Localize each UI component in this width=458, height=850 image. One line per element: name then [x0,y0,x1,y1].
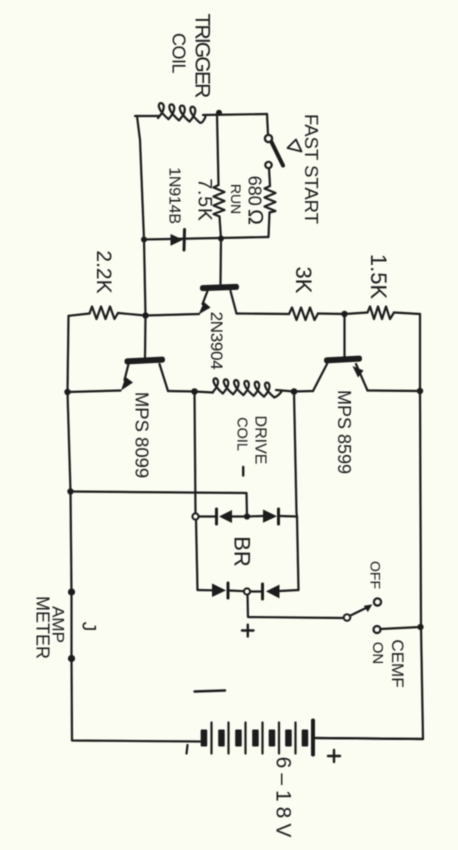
wire center tap up and left [71,492,248,517]
wire battery to right rail [315,738,423,739]
node: trigger/7.5K junction [216,110,222,116]
node 2.2K / Q2 base [142,312,148,318]
node meter jack top [68,588,75,595]
wire top rail left stub [135,115,159,117]
wire right rail [316,314,423,739]
wire node to 1.5K [345,313,368,315]
switch S1 motion arrow [288,140,302,152]
node diode row left [141,237,147,243]
svg-text:1.5K: 1.5K [366,254,391,300]
battery positive plate [311,721,315,755]
svg-text:BR: BR [230,536,255,567]
node left rail / Q2 emitter [64,389,70,395]
wire Q2 collector to coil node [168,390,195,393]
svg-text:FAST START: FAST START [301,114,322,224]
svg-text:2.2K: 2.2K [92,250,115,293]
wire run rail (bottom of loop) [144,237,269,240]
wire left vertical from trigger coil [137,116,146,316]
switch S2 pivot [344,614,351,621]
wire node to Q3 left leg [294,390,313,393]
node bridge top center [244,513,250,519]
transistor Q2 collector leg [160,364,169,391]
resistor 3K [289,308,318,321]
node meter jack bottom [68,655,75,662]
transistor Q3 left leg [313,364,327,391]
wire 7.5K bottom lead [220,217,222,239]
wire bridge right column [294,392,299,591]
switch S2 OFF contact [374,598,381,605]
wire 7.5K top lead [217,114,219,185]
wire 2.2K to base node [118,313,146,316]
diode BR bottom-left [212,584,226,598]
terminal circle bridge top-left [192,513,198,519]
svg-text:2N3904: 2N3904 [207,312,226,370]
svg-text:7.5K: 7.5K [194,178,216,221]
transistor Q1 collector leg [231,291,237,314]
svg-text:OFF: OFF [368,561,384,589]
wire Q3 base lead [343,314,345,357]
svg-text:1N914B: 1N914B [166,167,183,224]
wire Q2 base lead [144,316,147,358]
node left rail tap [67,488,73,494]
diode BR bottom-right [261,584,264,599]
switch S1 contact bottom [265,162,271,168]
transistor Q3 MPS8599 bar [324,356,362,364]
svg-text:CEMF: CEMF [388,639,407,687]
svg-text:680: 680 [245,176,265,206]
resistor 2.2K [90,307,119,320]
wire coil right to switch corner [203,114,267,115]
plus sign battery [328,750,340,762]
wire Q3 emitter to right rail [368,389,421,392]
node right rail / switch [417,624,423,630]
resistor 1.5K [368,307,395,320]
svg-text:ON: ON [369,642,386,665]
svg-text:COIL: COIL [234,417,250,451]
wire ON to right rail [381,627,421,629]
wire coil to node [276,390,294,392]
trigger coil L1 [158,103,206,123]
switch S2 ON contact [374,626,381,633]
switch S1 blade [272,142,284,166]
diode BR top-right [263,510,277,523]
wire to drive coil [195,392,214,393]
wire base node to Q1 emitter [146,314,200,316]
wire 680 bottom to run rail [269,213,270,238]
battery BT1 long plates [212,723,296,754]
wire left rail top corner [69,314,90,316]
wire 1.5K to right rail corner [394,313,420,315]
bridge bottom row: wire [198,589,213,591]
wire Q1 collector to 3K [237,312,290,315]
wire left rail [68,316,201,742]
svg-text:6–18V: 6–18V [272,757,295,843]
switch S2 blade [350,607,369,616]
node drive coil left [191,388,198,395]
wire Q1 base lead [219,239,222,284]
wire corner down to fast-start switch [267,114,268,135]
battery minus tick [187,745,188,754]
bridge top row: wire [199,515,216,517]
transistor Q1 emitter leg [203,291,208,304]
transistor Q2 emitter leg + arrow [125,364,129,380]
svg-text:DRIVE: DRIVE [252,416,269,465]
svg-text:TRIGGER: TRIGGER [191,13,214,98]
plus sign bridge output [242,625,254,637]
battery BT1 cells [201,730,309,747]
svg-text:3K: 3K [291,267,316,294]
transistor Q2 MPS8099 bar [124,356,165,364]
node 3K/1.5K/Q3 base [341,311,347,317]
svg-text:J: J [78,622,99,632]
switch S1 contact top [265,135,272,142]
transistor Q1 2N3904 bar [200,284,239,291]
resistor 680 ohm [265,186,276,213]
svg-text:COIL: COIL [169,33,189,74]
svg-text:MPS 8099: MPS 8099 [132,392,153,478]
battery minus overline [195,691,226,692]
wire Q2 emitter rail [68,391,121,393]
drive coil L2 [213,378,282,397]
diode D1 1N914B [171,234,184,246]
svg-text:RUN: RUN [228,184,244,214]
svg-text:METER: METER [33,596,53,659]
node drive coil right [291,388,298,395]
transistor Q3 emitter leg + arrow [356,364,368,391]
svg-text:MPS 8599: MPS 8599 [334,390,354,474]
terminal circle bridge bottom center [244,588,250,594]
diode BR top-left [215,509,218,524]
wire bridge left column [195,392,196,514]
node right rail / Q3 [417,388,423,394]
svg-text:Ω: Ω [244,209,267,225]
resistor 7.5K [214,185,225,217]
wire plus output down and right [248,595,344,618]
wire switch to 680 [269,168,270,186]
wire 3K to node [318,312,345,315]
node diode row / 7.5K bottom [218,236,224,242]
